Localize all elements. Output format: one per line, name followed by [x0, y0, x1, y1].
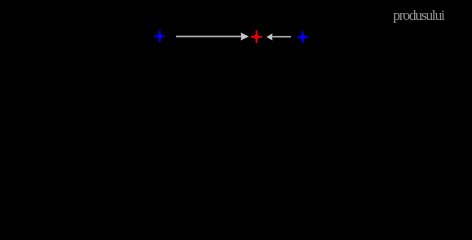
svg-text:produsului: produsului [393, 8, 445, 24]
particle marker P3 (blue sparkle, right) [297, 31, 309, 43]
wire: arrow shaft (left, pointing right) [176, 36, 242, 38]
arrowhead (right-pointing) [241, 33, 249, 41]
particle marker P2 (red sparkle, center) [251, 30, 262, 43]
wire: arrow shaft (right, pointing left) [272, 36, 291, 38]
arrowhead (left-pointing) [267, 33, 273, 40]
particle marker P1 (blue sparkle, left) [154, 30, 165, 42]
